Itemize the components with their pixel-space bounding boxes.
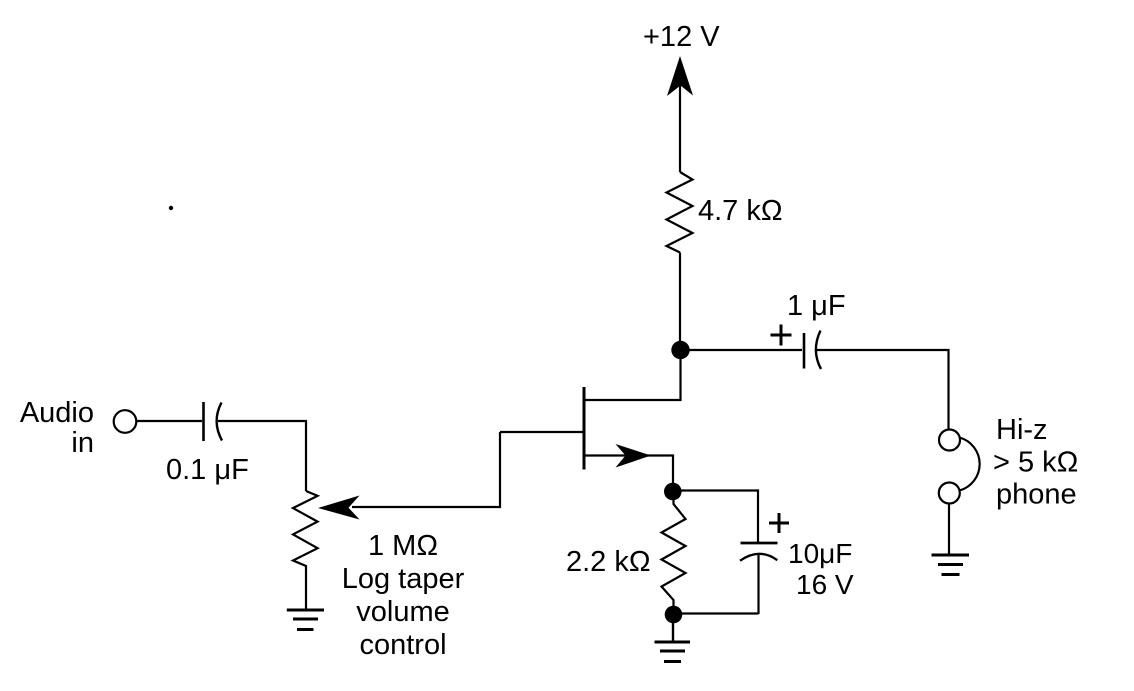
wire: supply arrow to R1 [679,83,681,172]
scan speck [169,206,173,210]
svg-text:1 μF: 1 μF [787,290,846,322]
svg-text:control: control [359,629,446,661]
svg-text:> 5 kΩ: > 5 kΩ [993,447,1078,479]
label Hi-z > 5 kOhm phone [993,414,1078,511]
capacitor C2 1 uF [804,331,821,370]
svg-text:4.7 kΩ: 4.7 kΩ [698,195,783,227]
+12 V supply arrow [667,56,693,96]
node: R2 bottom junction [665,606,683,624]
node: drain junction [671,341,689,359]
svg-text:Hi-z: Hi-z [996,414,1048,446]
resistor R1 4.7 kOhm [667,172,693,253]
svg-text:1 MΩ: 1 MΩ [368,530,438,562]
svg-text:Log taper: Log taper [342,563,465,595]
wire: C3 bottom lead [757,555,759,614]
potentiometer wiper arrow [318,496,360,520]
wire: Q1 source lead [585,456,673,488]
svg-text:phone: phone [996,479,1077,511]
svg-text:volume: volume [356,596,450,628]
wire: R1 to drain node [679,253,681,345]
transistor Q1 source arrow [616,444,652,468]
wire: source node to C3 top [673,491,758,543]
phone jack tip terminal [939,430,960,451]
transistor Q1 channel bar [583,387,586,470]
input terminal circle [114,410,137,433]
capacitor C3 10 uF [740,543,778,561]
svg-text:0.1 μF: 0.1 μF [166,454,249,486]
svg-text:10μF: 10μF [788,538,852,569]
wire: Q1 drain lead [585,350,681,400]
label 1 MOhm Log taper volume control [342,530,465,661]
wire: drain node to C2 [680,349,802,351]
ground: source network [655,642,691,662]
wire: wiper to Q1 gate [352,432,500,507]
capacitor C1 0.1 uF [204,402,223,441]
resistor R2 2.2 kOhm [662,492,686,607]
svg-text:in: in [71,427,94,459]
svg-text:16 V: 16 V [796,569,854,600]
wire: R2 bottom to ground [672,614,674,642]
wire: C2 to phone jack [817,350,949,430]
label Audio in [20,397,94,459]
svg-text:Audio: Audio [20,397,94,429]
wire: R2 bottom to C3 bottom [674,612,759,614]
node: source junction [664,483,682,501]
capacitor C2 polarity plus sign [771,325,792,346]
phone jack cord curve [960,438,980,491]
wire: input terminal to C1 [137,420,203,422]
wire: jack sleeve to ground [948,504,950,556]
ground: volume pot [287,610,324,630]
wire: C1 to volume pot top [218,421,306,491]
phone jack sleeve terminal [939,483,960,504]
value label 10 uF 16 V [788,538,854,600]
potentiometer R3 1 MOhm body [293,491,318,610]
ground: phone jack [932,555,970,575]
svg-text:2.2 kΩ: 2.2 kΩ [566,546,651,578]
svg-text:+12 V: +12 V [643,21,720,53]
capacitor C3 polarity plus sign [769,513,789,533]
wire: Q1 gate lead [500,431,583,433]
